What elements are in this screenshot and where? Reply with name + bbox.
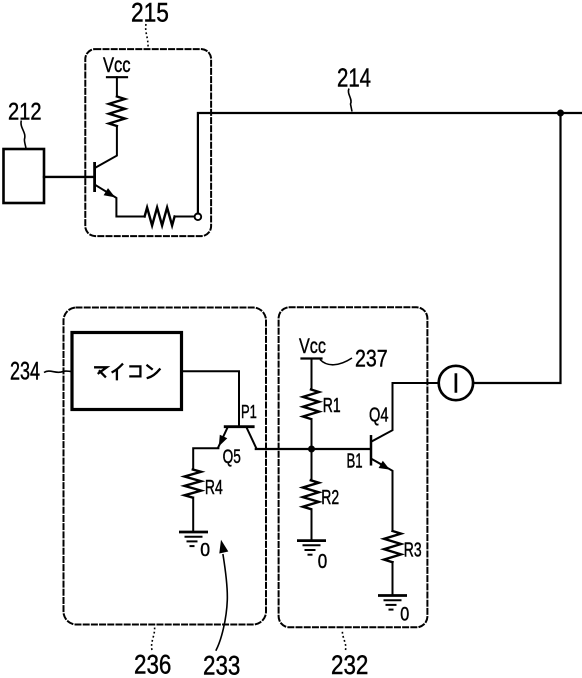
svg-text:237: 237: [355, 344, 388, 372]
svg-text:0: 0: [318, 550, 327, 573]
svg-text:R4: R4: [205, 475, 223, 498]
svg-text:214: 214: [337, 63, 371, 92]
svg-text:R3: R3: [404, 538, 422, 561]
svg-text:R1: R1: [323, 393, 341, 416]
svg-text:Vcc: Vcc: [299, 335, 326, 359]
svg-text:Q4: Q4: [369, 403, 389, 426]
svg-text:236: 236: [134, 651, 171, 678]
svg-text:P1: P1: [241, 403, 257, 423]
svg-text:215: 215: [131, 0, 169, 28]
svg-text:B1: B1: [347, 450, 363, 472]
svg-text:234: 234: [10, 357, 40, 386]
svg-text:233: 233: [203, 652, 240, 678]
svg-text:212: 212: [8, 98, 42, 125]
svg-text:0: 0: [200, 540, 210, 561]
svg-text:0: 0: [400, 603, 409, 625]
svg-text:232: 232: [331, 651, 368, 678]
svg-text:Vcc: Vcc: [103, 54, 131, 78]
svg-text:R2: R2: [321, 485, 339, 508]
svg-text:Q5: Q5: [223, 446, 241, 468]
